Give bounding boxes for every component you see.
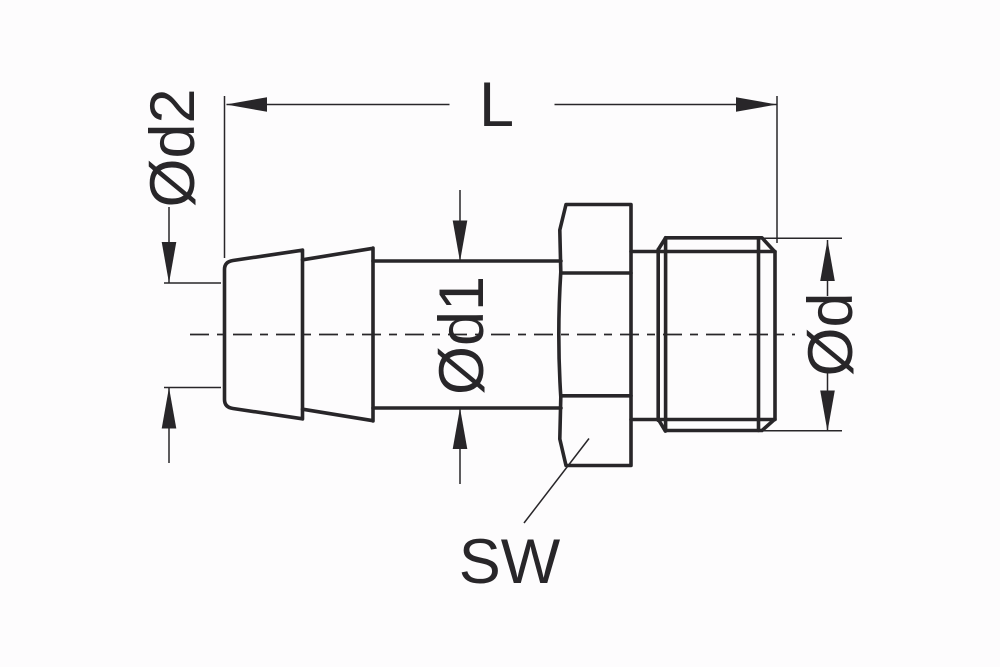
L arrow left bbox=[226, 97, 267, 112]
leader line SW bbox=[524, 439, 589, 524]
svg-text:L: L bbox=[479, 70, 514, 140]
Od1 arrow bottom bbox=[453, 408, 468, 449]
body cylinder bbox=[373, 261, 561, 408]
Od2 extension lines bbox=[164, 283, 221, 388]
Od2 dimension line bbox=[168, 207, 170, 463]
Od2 arrow bottom bbox=[162, 388, 177, 429]
Od1 arrow top bbox=[453, 221, 468, 262]
dimension line L bbox=[227, 104, 778, 106]
Od extension lines bbox=[760, 238, 842, 430]
hose barb segment 1 bbox=[225, 250, 303, 419]
svg-text:SW: SW bbox=[459, 527, 561, 597]
hex nut bbox=[559, 205, 631, 466]
L arrow right bbox=[736, 97, 777, 112]
svg-text:Ød2: Ød2 bbox=[138, 88, 208, 207]
L extension line right bbox=[776, 96, 778, 243]
Od arrow top bbox=[820, 240, 835, 281]
Od dimension line bbox=[827, 240, 829, 432]
Od2 arrow top bbox=[162, 242, 177, 283]
centerline bbox=[190, 334, 795, 336]
thread end face line bbox=[757, 238, 761, 431]
thread minor diameter lines bbox=[631, 252, 775, 420]
svg-text:Ød1: Ød1 bbox=[427, 276, 497, 395]
Od1 dimension line bbox=[459, 190, 461, 484]
svg-text:Ød: Ød bbox=[796, 292, 866, 376]
thread start face line bbox=[664, 238, 668, 431]
threaded end outer profile bbox=[665, 238, 775, 431]
Od arrow bottom bbox=[820, 391, 835, 432]
hose barb segment 2 bbox=[303, 248, 374, 421]
thread left chamfer edges bbox=[658, 238, 665, 431]
L extension line left bbox=[224, 96, 226, 258]
thread shoulder face at neck bbox=[656, 250, 660, 421]
hex nut face lines bbox=[563, 273, 632, 396]
